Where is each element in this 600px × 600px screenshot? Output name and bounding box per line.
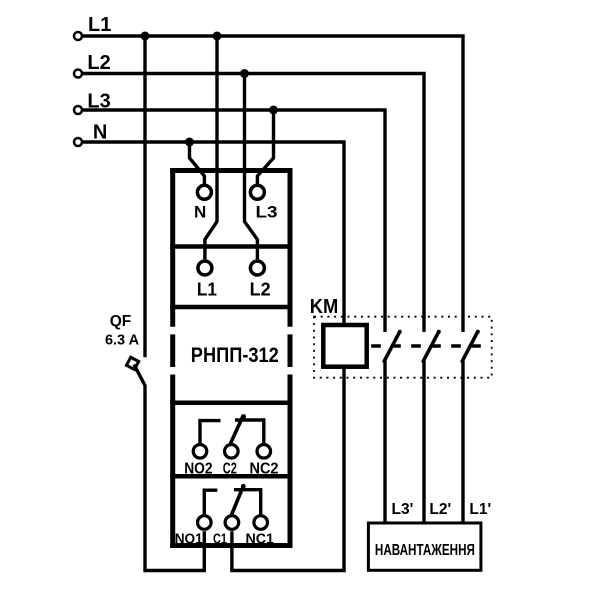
- coil KM: [323, 325, 366, 367]
- svg-text:L3: L3: [256, 202, 278, 221]
- device divider 2: [170, 305, 292, 310]
- svg-text:L2': L2': [429, 501, 451, 518]
- svg-text:6.3 A: 6.3 A: [105, 333, 140, 349]
- svg-text:QF: QF: [110, 313, 132, 330]
- device divider 4: [170, 474, 292, 479]
- KM contact 1: [384, 330, 402, 523]
- load box: [368, 523, 481, 570]
- svg-text:NC1: NC1: [245, 531, 274, 548]
- junction N-device: [185, 138, 194, 147]
- wire L1 to QF: [143, 36, 146, 357]
- KM linkage dashed: [371, 344, 481, 347]
- wire L3 into device: [257, 110, 273, 184]
- KM dashed enclosure: [314, 317, 492, 378]
- svg-text:C1: C1: [213, 531, 227, 548]
- svg-text:L3': L3': [392, 501, 414, 518]
- svg-text:L2: L2: [87, 52, 110, 74]
- junction L3-device: [269, 106, 278, 115]
- svg-text:KM: KM: [310, 296, 339, 318]
- wire L1 into device: [205, 36, 217, 259]
- relay contact NC1: [254, 516, 268, 530]
- svg-text:NO2: NO2: [184, 460, 212, 477]
- svg-text:L2: L2: [250, 280, 271, 300]
- relay contact NC2: [257, 445, 271, 459]
- svg-text:NO1: NO1: [175, 531, 203, 548]
- terminal L2: [74, 70, 82, 78]
- wire L2 bus: [83, 74, 424, 332]
- device box РНПП-312 outline: [170, 168, 292, 548]
- svg-text:L1: L1: [197, 280, 217, 300]
- relay contact C2: [225, 445, 239, 459]
- terminal L3: [74, 106, 82, 114]
- junction L1-device: [213, 32, 222, 41]
- svg-text:РНПП-312: РНПП-312: [191, 344, 279, 367]
- relay contact NO2: [193, 445, 207, 459]
- bracket NC1: [234, 490, 261, 516]
- device terminal N: [197, 185, 211, 199]
- wire L3 bus: [83, 110, 385, 332]
- relay contact C1: [225, 516, 239, 530]
- svg-text:НАВАНТАЖЕННЯ: НАВАНТАЖЕННЯ: [375, 542, 475, 559]
- device terminal L3: [250, 185, 264, 199]
- bracket NC2: [235, 420, 264, 444]
- device terminal L2: [250, 261, 264, 275]
- terminal L1: [74, 32, 82, 40]
- svg-text:C2: C2: [223, 460, 237, 477]
- wire L1 bus: [83, 36, 463, 332]
- device divider 1: [170, 244, 292, 249]
- svg-text:NC2: NC2: [250, 460, 279, 477]
- terminal N: [74, 138, 82, 146]
- relay arm C2: [231, 414, 246, 443]
- junction L1-QF: [141, 32, 150, 41]
- svg-text:L1': L1': [469, 501, 491, 518]
- wire N into device: [190, 142, 205, 184]
- device terminal L1: [198, 261, 212, 275]
- wire N bus: [83, 142, 344, 323]
- relay contact NO1: [198, 516, 212, 530]
- svg-text:N: N: [93, 121, 107, 143]
- bracket NO2: [200, 421, 221, 445]
- junction L2-device: [240, 69, 249, 78]
- svg-text:N: N: [194, 202, 206, 221]
- svg-text:L1: L1: [88, 14, 111, 36]
- KM contact 2: [423, 330, 441, 523]
- KM contact 3: [462, 330, 480, 523]
- bracket NO1: [204, 490, 217, 515]
- relay arm C1: [231, 484, 245, 515]
- wire QF to NO1: [145, 385, 204, 571]
- wire C1 to KM coil: [232, 369, 344, 571]
- device divider 3: [170, 400, 292, 405]
- wire L2 into device: [245, 74, 258, 260]
- breaker QF: [127, 357, 145, 385]
